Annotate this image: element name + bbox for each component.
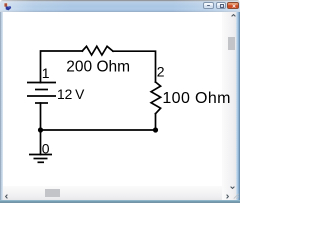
horizontal scrollbar track [3, 186, 222, 200]
vertical scrollbar down arrow [230, 186, 235, 189]
battery V1 plate long [27, 95, 56, 97]
svg-text:1: 1 [42, 65, 50, 81]
horizontal scrollbar thumb [45, 189, 60, 197]
title bar icon [3, 2, 12, 11]
battery V1 plates [27, 83, 56, 104]
circuit schematic SVG [0, 0, 240, 203]
window title bar [0, 0, 240, 12]
battery V1 plate short bottom [35, 102, 48, 104]
bottom window border [0, 200, 240, 203]
right window border [236, 12, 240, 200]
minimize button [203, 2, 214, 9]
battery V1 plate short [35, 89, 48, 91]
vertical scrollbar up arrow [231, 14, 236, 17]
svg-text:0: 0 [42, 140, 50, 156]
window resize grip [233, 193, 239, 199]
wire: bottom rail [41, 129, 156, 131]
ground symbol [29, 155, 52, 163]
svg-text:100 Ohm: 100 Ohm [162, 90, 230, 107]
junction dot at node 0 (battery/rail/ground) [38, 127, 43, 132]
maximize button [216, 2, 227, 9]
close button [227, 2, 239, 9]
svg-text:200 Ohm: 200 Ohm [66, 59, 130, 76]
vertical scrollbar track [222, 12, 236, 200]
svg-text:12 V: 12 V [57, 87, 85, 102]
junction dot at bottom of R2 [153, 127, 158, 132]
wire: R2 bottom lead down to bottom-right junction [155, 114, 157, 130]
wire: ground stem [40, 130, 42, 155]
horizontal scrollbar left arrow [5, 194, 8, 199]
wire: R1 right lead to node 2 corner, down to R2 top [113, 51, 156, 82]
wire: top-left corner to resistor R1 left lead [41, 51, 83, 83]
schematic canvas [3, 12, 222, 186]
svg-text:2: 2 [157, 64, 165, 80]
left window border [0, 12, 3, 200]
horizontal scrollbar right arrow [226, 194, 229, 199]
wire: battery V1 bottom lead [40, 103, 42, 130]
battery V1 plate long top [27, 82, 56, 84]
vertical scrollbar thumb [228, 37, 235, 50]
resistor R2 100 Ohm (vertical zigzag) [151, 82, 161, 114]
resistor R1 200 Ohm (horizontal zigzag) [82, 46, 113, 55]
